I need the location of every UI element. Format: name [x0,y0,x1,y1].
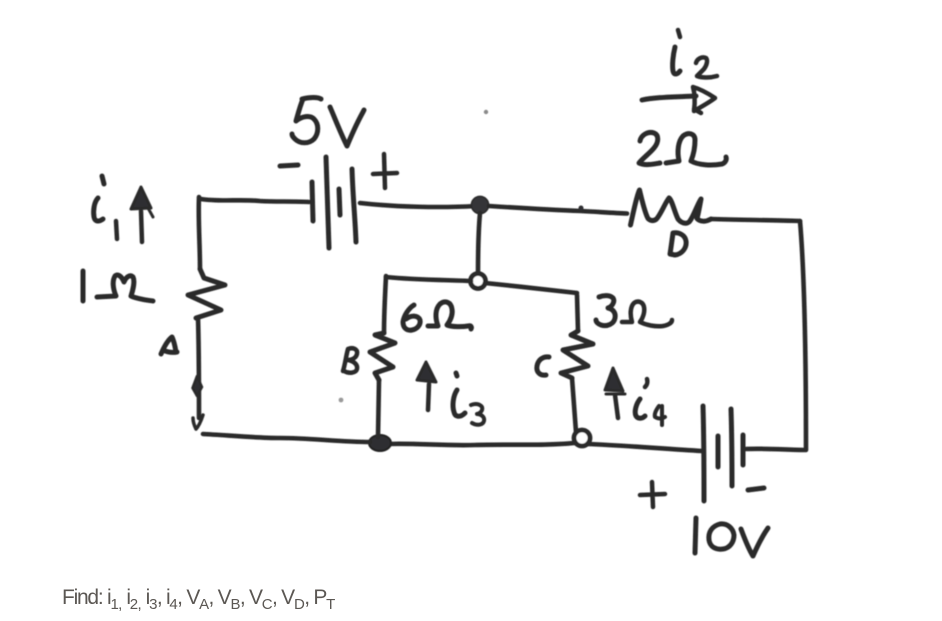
node: top junction (filled) [471,196,488,213]
resistor C 3ohm zigzag [561,331,593,378]
wire: top-left horizontal (left corner to 5V battery minus plate) [201,199,309,202]
battery V1 5V long plate left [326,157,329,248]
label 6ohm (value of resistor B) [403,305,420,330]
wire: branch B vertical bottom [378,380,379,437]
battery V1 5V long plate right [352,169,356,242]
battery V1 5V minus plate (short) [312,182,313,221]
resistor D 2ohm (hump squiggle) [631,190,712,225]
label i2 [678,30,680,37]
label 10V [695,518,696,553]
label 2ohm (value of resistor D) [639,132,660,164]
resistor B 6ohm zigzag [370,333,395,380]
wire: branch C vertical bottom [572,378,576,432]
battery V2 10V long plate right-inner [731,409,732,486]
resistor A 1ohm zigzag [188,269,225,318]
wire: left vertical bottom segment (with direction tick and end hook) [198,318,199,418]
label i1 [102,176,104,184]
label 3ohm (value of resistor C) [596,296,615,326]
wire: 5V battery to top junction [360,203,476,207]
label i3 [456,373,457,376]
polarity plus (10V left) [640,482,665,507]
battery V1 5V short plate middle [339,189,340,215]
current arrow i3 [428,384,429,410]
wire: left vertical top segment [199,197,200,269]
wire: bottom-right corner to 10V battery right plate [746,449,806,450]
wire: branch B vertical top [384,276,386,333]
battery V2 10V short plate right [741,435,746,465]
caption: Find list [62,586,335,613]
label 1ohm (value of resistor A) [81,271,86,301]
polarity plus (5V right) [373,154,397,188]
wire: branch C vertical top [577,295,578,331]
battery V2 10V long plate left [703,406,704,501]
node: bottom-left junction (filled) [369,435,391,451]
label D [670,233,686,255]
polarity minus (10V right) [748,488,764,490]
wire: top junction to resistor D (with small blob) [489,206,627,214]
wire: bottom middle (node C to node B) [388,443,574,445]
wire: bottom-left (node B to left corner) [203,434,370,442]
node: bottom-right junction (open circle) [574,430,590,446]
label 5V [292,98,321,143]
label A [161,337,177,354]
current arrow i1 [141,211,142,242]
wire: right vertical [800,221,806,449]
wire: top junction drop to inner circuit [478,213,480,274]
node: inner top junction (open circle) [471,274,486,289]
wire: inner top horizontal [386,277,577,293]
current arrow i2 (horizontal with open head) [642,96,696,100]
current arrow i4 [615,395,618,418]
battery V2 10V short plate middle [716,436,721,467]
wire: 10V battery left plate to bottom-right node [587,444,702,451]
node: small blob on wire [579,206,584,211]
label B [343,348,357,373]
label i4 [645,379,647,387]
polarity minus (5V left) [280,165,298,166]
wire: resistor D to right vertical [711,219,800,221]
label C [537,357,549,375]
